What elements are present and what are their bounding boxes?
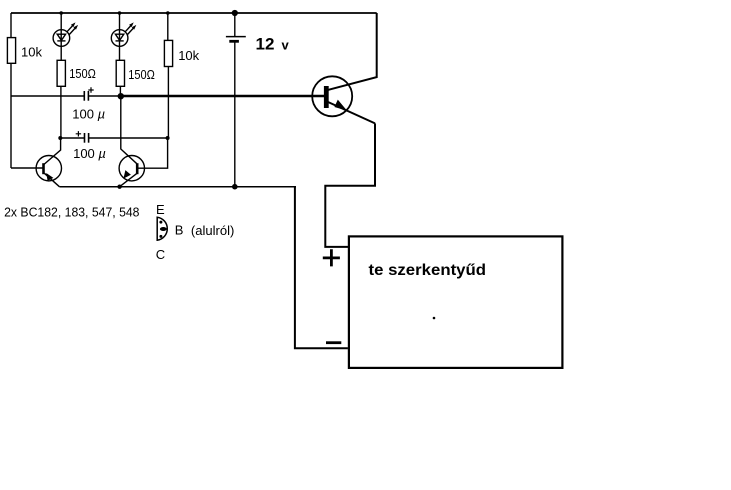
svg-text:E: E <box>156 202 165 217</box>
wire LED D2 branch <box>119 13 121 60</box>
svg-text:C: C <box>156 247 165 262</box>
wire cap C2 row left <box>60 137 84 139</box>
junction node B cap C1 to Q3 base <box>118 93 124 99</box>
svg-text:100 µ: 100 µ <box>72 107 105 122</box>
svg-text:10k: 10k <box>178 48 199 63</box>
transistor Q2 <box>119 156 144 187</box>
wire battery bottom <box>234 43 236 187</box>
transistor Q1 <box>36 156 61 187</box>
junction node top R2 <box>166 11 170 15</box>
wire left vertical (10k R1 branch) <box>10 13 12 168</box>
wire cap C2 row right <box>89 137 168 139</box>
plus terminal <box>323 249 340 266</box>
wire bottom 0V rail <box>59 186 296 188</box>
wire Q2 collector riser <box>121 96 137 164</box>
transistor Q3 power <box>312 76 352 116</box>
junction node emitter Q2 <box>117 185 121 189</box>
svg-text:10k: 10k <box>21 44 42 59</box>
resistor R1 10k <box>7 38 15 64</box>
battery B1 12V <box>226 37 246 42</box>
wire cap C1 row left <box>11 95 84 97</box>
svg-text:2x BC182, 183, 547, 548: 2x BC182, 183, 547, 548 <box>4 204 139 219</box>
svg-text:v: v <box>282 37 290 52</box>
wire Q1 collector riser <box>44 138 61 165</box>
wire 10k R2 top <box>167 13 169 40</box>
wire Q3 emitter <box>328 102 375 123</box>
svg-text:100 µ: 100 µ <box>73 146 106 161</box>
junction node cap C2 right <box>166 136 170 140</box>
wire emitter down to plus terminal <box>325 123 375 246</box>
resistor R4 150ohm <box>116 60 124 86</box>
TO-92 package bottom view <box>157 217 167 240</box>
svg-text:B: B <box>175 222 184 237</box>
wire battery top <box>234 13 236 36</box>
svg-text:(alulról): (alulról) <box>191 223 235 238</box>
resistor R3 150ohm <box>57 60 65 86</box>
junction node top LED D1 <box>59 11 63 15</box>
resistor R2 10k <box>164 40 172 66</box>
wire R3 to node A <box>60 86 62 138</box>
capacitor C2 100u <box>76 131 89 143</box>
wire top +12V rail <box>11 12 377 14</box>
minus terminal <box>326 341 341 344</box>
svg-text:te szerkentyűd: te szerkentyűd <box>369 262 487 279</box>
junction node top LED D2 <box>118 11 122 15</box>
wire Q3 collector to rail <box>327 13 377 90</box>
LED D1 <box>53 22 78 46</box>
LED D2 <box>111 22 136 46</box>
junction node battery minus <box>232 184 238 190</box>
wire bold base of Q3 <box>121 95 326 98</box>
wire Q2 base <box>138 138 168 168</box>
box te szerkentyud <box>349 236 563 368</box>
svg-text:150Ω: 150Ω <box>69 66 96 81</box>
wire 10k R2 bottom to node C <box>167 67 169 139</box>
wire cap C1 row right <box>89 95 121 97</box>
dot inside box <box>433 317 436 320</box>
svg-text:12: 12 <box>256 34 275 53</box>
wire 0V down to minus terminal <box>295 187 348 349</box>
wire R4 to node B <box>119 86 121 96</box>
junction node cap C2 left <box>58 136 62 140</box>
svg-text:150Ω: 150Ω <box>128 67 155 82</box>
capacitor C1 100u <box>84 87 93 100</box>
wire Q1 base <box>11 167 44 169</box>
wire LED D1 branch <box>60 13 62 60</box>
junction node battery plus <box>232 10 238 16</box>
